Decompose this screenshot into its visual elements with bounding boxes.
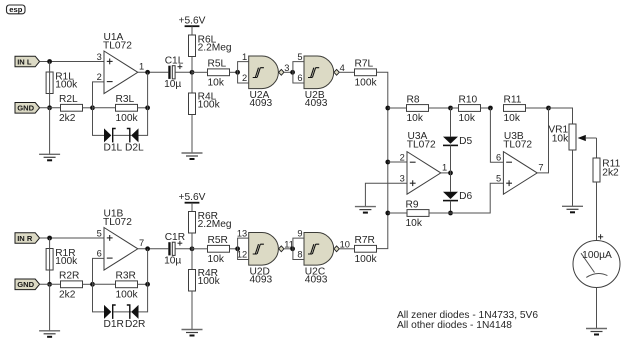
svg-text:10µ: 10µ [164, 256, 181, 267]
resistor R1L [46, 72, 78, 94]
resistor R3L [116, 94, 139, 124]
wire R6R to node [191, 233, 193, 249]
junction gate input bracket [235, 70, 240, 75]
resistor R2R [59, 271, 83, 301]
svg-text:100k: 100k [116, 113, 139, 124]
wire bus to R9 [388, 212, 407, 214]
resistor R5R [208, 235, 230, 265]
svg-text:R7R: R7R [355, 235, 375, 246]
svg-text:3: 3 [284, 63, 289, 73]
svg-text:C1R: C1R [165, 232, 185, 243]
svg-text:5: 5 [97, 228, 102, 238]
svg-text:R7L: R7L [355, 59, 374, 70]
svg-text:C1L: C1L [165, 56, 184, 67]
wire bus vertical [377, 108, 388, 249]
junction R11/U3B output [546, 106, 551, 111]
zener diode D1L [104, 128, 123, 153]
resistor R3R [116, 271, 139, 301]
svg-text:4093: 4093 [250, 98, 273, 109]
wire U2D out [284, 248, 293, 250]
svg-text:2: 2 [242, 73, 247, 83]
svg-text:7: 7 [139, 238, 144, 248]
svg-text:2.2Meg: 2.2Meg [198, 219, 232, 230]
wire gnd line to ground [49, 108, 51, 155]
svg-text:2k2: 2k2 [59, 290, 76, 301]
wire R4R to ground [191, 291, 193, 330]
wire node to R5R [192, 248, 208, 250]
node GND tag (R channel) [15, 279, 40, 290]
nand gate U2C 4093 [297, 228, 350, 285]
resistor R8 [407, 94, 429, 124]
op-amp U3B TL072 [496, 131, 544, 194]
wire zener branch left [93, 284, 105, 312]
wire R9 to node [429, 212, 451, 214]
svg-text:6: 6 [496, 153, 501, 163]
zener diode D2R [125, 305, 145, 330]
nand gate U2B 4093 [297, 52, 344, 109]
node GND tag (L channel) [15, 103, 40, 114]
node IN L input tag [15, 56, 40, 67]
nand gate U2A 4093 [242, 52, 289, 109]
wire meter to ground [596, 288, 598, 329]
svg-text:GND: GND [17, 104, 34, 113]
wire between zeners [113, 134, 131, 136]
junction bus/R8 [385, 106, 390, 111]
ground (input, R channel) [39, 331, 60, 337]
wire wiper down to R11 2k2 [596, 138, 598, 158]
wire bus to R8 [388, 107, 407, 109]
svg-text:10k: 10k [208, 254, 225, 265]
svg-text:TL072: TL072 [103, 217, 132, 228]
svg-text:R3L: R3L [116, 94, 135, 105]
svg-text:R8: R8 [407, 94, 420, 105]
resistor R6R [189, 211, 232, 233]
svg-text:D6: D6 [459, 191, 472, 202]
svg-text:IN R: IN R [17, 234, 33, 243]
wire R5L to gate input [230, 71, 238, 73]
wire zener branch left [93, 108, 105, 136]
svg-text:D1L: D1L [104, 143, 123, 154]
wire U2A out [284, 71, 293, 73]
svg-text:D5: D5 [459, 136, 472, 147]
capacitor C1R [164, 232, 185, 267]
svg-text:D2R: D2R [125, 319, 145, 330]
wire zener branch right [139, 108, 148, 136]
resistor R2L [59, 94, 83, 124]
svg-text:5: 5 [496, 174, 501, 184]
wire R4L to ground [191, 115, 193, 154]
junction output/feedback [145, 70, 150, 75]
wire input bracket U2A [238, 62, 249, 83]
svg-text:12: 12 [237, 250, 247, 260]
nand gate U2D 4093 [237, 228, 294, 285]
diode D6 [443, 191, 472, 202]
junction gnd line / R1L [47, 105, 52, 110]
junction bus/R9 [385, 211, 390, 216]
svg-text:GND: GND [17, 280, 34, 289]
ground (R4L) [182, 153, 203, 159]
wire out node to VR1 [549, 108, 573, 124]
wire VR1 bottom to ground [572, 150, 574, 206]
svg-text:R3R: R3R [116, 271, 136, 282]
svg-text:4093: 4093 [305, 275, 328, 286]
svg-text:100µA: 100µA [582, 250, 612, 261]
wire U3B -input [490, 108, 503, 162]
svg-text:100k: 100k [116, 290, 139, 301]
wire U3A output [441, 172, 451, 174]
junction U3A output/D5/D6 [448, 171, 453, 176]
svg-text:TL072: TL072 [503, 139, 532, 150]
svg-text:R2R: R2R [59, 271, 79, 282]
svg-text:R5L: R5L [208, 59, 227, 70]
junction output/feedback [145, 246, 150, 251]
wire R1R bottom to gnd line [49, 238, 51, 270]
ground (U3A +input) [355, 207, 376, 213]
wire R8 to D5 node [429, 107, 451, 109]
svg-text:100k: 100k [355, 78, 378, 89]
esp logo [7, 5, 26, 14]
wire feedback to R3R [93, 283, 116, 285]
junction R2L/R3L/-input [90, 105, 95, 110]
junction U2D/U2C [290, 246, 295, 251]
svg-text:D2L: D2L [125, 143, 144, 154]
svg-text:100k: 100k [55, 256, 78, 267]
wire IN R to U1B +input [40, 237, 104, 239]
wire U3B output up [537, 108, 548, 173]
svg-text:13: 13 [237, 228, 247, 238]
capacitor C1L [164, 56, 184, 91]
svg-text:4093: 4093 [305, 98, 328, 109]
svg-text:3: 3 [97, 52, 102, 62]
op-amp U3A TL072 [400, 131, 448, 194]
power +5.6V rail (L) [179, 15, 206, 26]
svg-text:All other diodes - 1N4148: All other diodes - 1N4148 [397, 320, 512, 331]
svg-text:1: 1 [242, 52, 247, 62]
wire rail to R6R [191, 203, 193, 212]
junction IN L / R1L [47, 59, 52, 64]
svg-text:TL072: TL072 [103, 40, 132, 51]
wire output node to D6 [450, 173, 452, 192]
svg-text:6: 6 [297, 73, 302, 83]
wire gnd tag to R2L [40, 107, 61, 109]
wire R10 from node [451, 107, 459, 109]
svg-text:2k2: 2k2 [59, 113, 76, 124]
svg-text:2: 2 [97, 72, 102, 82]
meter + terminal label [598, 234, 603, 239]
resistor R4L [189, 91, 221, 114]
svg-text:10k: 10k [406, 218, 423, 229]
wire opamp out [138, 248, 169, 250]
ground (input, L channel) [39, 154, 60, 160]
op-amp U1B TL072 [97, 208, 145, 270]
wire R3L to output node [138, 107, 148, 109]
wire -input stub [93, 258, 105, 284]
wire feedback to R3L [93, 107, 116, 109]
resistor R5L [208, 59, 230, 89]
svg-text:R5R: R5R [208, 235, 228, 246]
svg-text:100k: 100k [55, 80, 78, 91]
svg-text:3: 3 [400, 174, 405, 184]
svg-text:8: 8 [297, 250, 302, 260]
wire input bracket U2C [293, 238, 304, 259]
wire gnd line to ground [49, 284, 51, 331]
wire node to R5L [192, 71, 208, 73]
svg-text:10k: 10k [459, 113, 476, 124]
svg-text:6: 6 [97, 249, 102, 259]
note other diodes [397, 320, 512, 331]
resistor R10 [459, 94, 481, 124]
svg-text:10k: 10k [407, 113, 424, 124]
junction R10/R11/U3B -input [488, 106, 493, 111]
junction R8/R10/D5 [448, 106, 453, 111]
junction R3R/output [145, 282, 150, 287]
wire R1L bottom to gnd line [49, 62, 51, 94]
junction R3L/output [145, 105, 150, 110]
op-amp U1A TL072 [97, 32, 145, 94]
resistor R9 [406, 199, 430, 229]
wire R11 to out node [526, 107, 549, 109]
resistor R4R [189, 268, 221, 291]
svg-text:+5.6V: +5.6V [179, 192, 206, 203]
wire input bracket U2D [238, 238, 249, 259]
wire IN L to U1A +input [40, 61, 104, 63]
svg-text:4093: 4093 [250, 275, 273, 286]
junction gnd line / R1R [47, 282, 52, 287]
wire D5 to output node [450, 145, 452, 173]
wire cap to filter node [175, 71, 192, 73]
wire R7L to bus [377, 72, 388, 108]
resistor R7R [355, 235, 378, 265]
junction D6/R9/U3B +input [448, 211, 453, 216]
junction IN R / R1R [47, 236, 52, 241]
wire R6L to node [191, 57, 193, 73]
wire R1R to gnd node [49, 270, 51, 284]
svg-text:1: 1 [139, 62, 144, 72]
svg-text:10k: 10k [504, 113, 521, 124]
wire -input stub [93, 82, 105, 108]
wire R2R to feedback node [83, 283, 93, 285]
svg-text:+5.6V: +5.6V [179, 15, 206, 26]
resistor R1R [46, 248, 78, 270]
meter M1 100uA [573, 241, 620, 288]
svg-text:2k2: 2k2 [602, 167, 619, 178]
resistor R6L [189, 35, 232, 57]
wire between zeners [113, 311, 131, 313]
junction R2R/R3R/-input [90, 282, 95, 287]
resistor R11 [504, 94, 526, 124]
note zener diodes [397, 310, 538, 321]
ground (meter) [586, 329, 607, 335]
wire cap to filter node [175, 248, 192, 250]
svg-text:7: 7 [538, 162, 543, 172]
svg-text:2.2Meg: 2.2Meg [198, 43, 232, 54]
potentiometer VR1 [548, 124, 576, 150]
wire input bracket U2B [293, 62, 304, 83]
wire R1L to gnd node [49, 94, 51, 108]
wire D6 to R9 node [450, 201, 452, 213]
svg-text:R11: R11 [504, 94, 522, 105]
node IN R input tag [15, 233, 40, 244]
svg-text:D1R: D1R [104, 319, 124, 330]
svg-text:10µ: 10µ [164, 79, 181, 90]
wire node to R4L [191, 72, 193, 93]
wire opamp out [138, 71, 169, 73]
wire R3R to output node [138, 283, 148, 285]
resistor R11 (2k2) [593, 158, 621, 182]
wire R11 2k2 to meter [596, 182, 598, 241]
ground (R4R) [182, 330, 203, 336]
svg-text:100k: 100k [198, 276, 221, 287]
wire R2L to feedback node [83, 107, 93, 109]
svg-text:R10: R10 [459, 94, 478, 105]
wire U2B out to R7L [339, 71, 354, 73]
zener diode D1R [104, 305, 124, 330]
wire output down to R3 line [147, 249, 149, 284]
svg-text:9: 9 [297, 228, 302, 238]
wire R5R to gate input [230, 248, 238, 250]
junction filter node [190, 246, 195, 251]
junction filter node [190, 70, 195, 75]
wire U3B +input [451, 183, 504, 213]
junction gate input bracket [235, 246, 240, 251]
wire U2C out to R7R [339, 248, 354, 250]
zener diode D2L [125, 128, 144, 153]
wire R10 to R11 node [481, 107, 491, 109]
svg-text:R2L: R2L [59, 94, 78, 105]
svg-text:4: 4 [340, 63, 345, 73]
power +5.6V rail (R) [179, 192, 206, 203]
svg-text:10k: 10k [552, 134, 569, 145]
svg-text:10: 10 [340, 239, 350, 249]
wire gnd tag to R2R [40, 283, 61, 285]
svg-text:100k: 100k [355, 254, 378, 265]
svg-text:IN L: IN L [17, 57, 32, 66]
svg-text:R9: R9 [406, 199, 419, 210]
svg-text:esp: esp [9, 5, 22, 14]
wire D5 chain [450, 108, 452, 137]
svg-text:5: 5 [297, 52, 302, 62]
wire -input U3A [388, 161, 407, 163]
wire U3A +input to ground [365, 183, 407, 206]
svg-text:TL072: TL072 [407, 139, 436, 150]
svg-text:2: 2 [400, 153, 405, 163]
wire output down to R3 line [147, 72, 149, 108]
ground (VR1) [562, 206, 583, 212]
svg-text:100k: 100k [198, 99, 221, 110]
svg-text:1: 1 [442, 162, 447, 172]
wire zener branch right [139, 284, 148, 312]
junction U2A/U2B [290, 70, 295, 75]
wire node to R4R [191, 249, 193, 270]
svg-text:10k: 10k [208, 78, 225, 89]
junction bus/U3A -input [385, 160, 390, 165]
wire rail to R6L [191, 26, 193, 35]
wiper arrow VR1 [578, 135, 597, 141]
resistor R7L [355, 59, 378, 89]
diode D5 [443, 136, 472, 147]
